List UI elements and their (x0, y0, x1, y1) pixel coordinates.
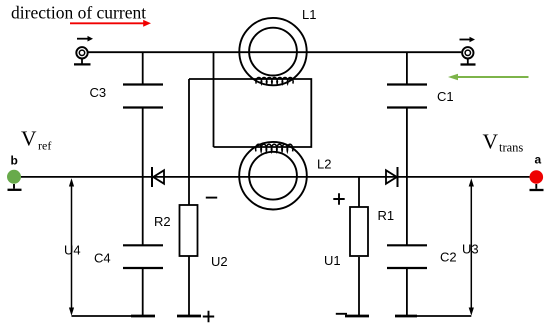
svg-text:U3: U3 (462, 241, 479, 256)
svg-text:C4: C4 (94, 250, 111, 265)
svg-text:ref: ref (38, 139, 51, 153)
svg-text:L2: L2 (317, 157, 331, 172)
svg-text:C3: C3 (90, 85, 107, 100)
svg-text:U4: U4 (64, 243, 81, 258)
svg-text:direction of current: direction of current (11, 3, 146, 23)
svg-text:V: V (483, 130, 499, 154)
svg-text:a: a (535, 153, 542, 167)
svg-text:R1: R1 (378, 208, 395, 223)
svg-text:L1: L1 (302, 7, 316, 22)
svg-text:C1: C1 (437, 89, 454, 104)
svg-text:U2: U2 (211, 254, 228, 269)
svg-text:trans: trans (499, 141, 523, 155)
svg-text:U1: U1 (324, 253, 341, 268)
svg-text:R2: R2 (154, 214, 171, 229)
svg-text:C2: C2 (440, 250, 457, 265)
svg-text:V: V (21, 127, 37, 151)
svg-text:b: b (11, 154, 18, 168)
